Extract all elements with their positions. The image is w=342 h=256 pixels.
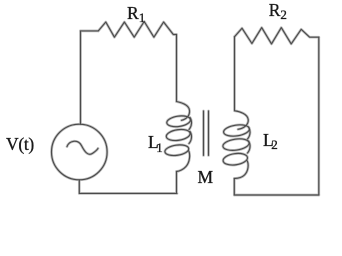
label R1 bbox=[127, 3, 145, 24]
wire right loop left vertical (top) bbox=[234, 37, 236, 111]
wire right loop left vertical (bottom) bbox=[233, 179, 235, 196]
inductor L1 loop 3 bbox=[164, 143, 189, 156]
wire right loop bottom bbox=[234, 194, 318, 196]
inductor L1 connector 1-2 bbox=[189, 118, 192, 130]
inductor L1 exit arc bbox=[177, 151, 190, 172]
inductor L2 connector 2-3 bbox=[248, 141, 251, 153]
label L2 bbox=[263, 130, 278, 151]
inductor L1 entry arc bbox=[177, 102, 190, 121]
scan-blur halo underlay (decorative) bbox=[52, 22, 319, 196]
sine symbol inside source bbox=[67, 141, 98, 154]
wire bottom of left loop bbox=[79, 192, 177, 194]
label M bbox=[198, 167, 214, 188]
inductor L2 loop 2 bbox=[222, 137, 250, 152]
inductor L2 exit arc bbox=[234, 161, 248, 179]
label L1 bbox=[148, 132, 163, 153]
inductor L1 connector 2-3 bbox=[189, 132, 192, 144]
label V(t) bbox=[6, 134, 34, 155]
wire left vertical (top of source) bbox=[80, 31, 82, 124]
wire right vertical of left loop (bottom) bbox=[176, 172, 178, 194]
resistor R2 bbox=[235, 28, 319, 44]
wire right loop right vertical bbox=[318, 37, 320, 195]
source V(t) circle U1 bbox=[52, 124, 108, 180]
circuit line art bbox=[52, 22, 319, 196]
inductor L2 connector 1-2 bbox=[248, 127, 251, 139]
inductor L2 entry arc bbox=[235, 111, 248, 130]
inductor L1 loop 2 bbox=[166, 128, 191, 142]
wire right vertical of left loop (top, below R1) bbox=[176, 35, 178, 102]
wire left loop top-left horizontal bbox=[81, 30, 99, 32]
resistor R1 bbox=[98, 22, 176, 38]
coupling bars M bbox=[203, 111, 205, 155]
inductor L2 loop 1 bbox=[223, 123, 250, 137]
label R2 bbox=[269, 0, 287, 21]
wire left vertical below source bbox=[78, 180, 80, 194]
inductor L2 loop 3 bbox=[222, 152, 248, 167]
inductor L1 loop 1 bbox=[166, 114, 191, 128]
